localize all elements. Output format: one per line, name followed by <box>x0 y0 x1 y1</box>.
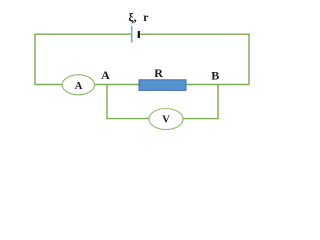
svg-text:ξ,: ξ, <box>128 10 136 24</box>
svg-text:R: R <box>154 66 163 80</box>
svg-text:r: r <box>143 10 149 24</box>
svg-text:B: B <box>211 69 219 83</box>
svg-text:A: A <box>75 81 83 92</box>
svg-text:A: A <box>101 68 110 82</box>
svg-text:V: V <box>162 115 170 126</box>
